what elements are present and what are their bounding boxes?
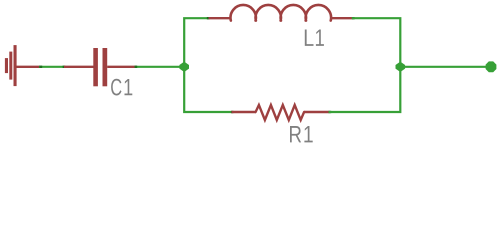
junction mark at R1 left pin — [231, 111, 234, 113]
node B junction dot — [396, 62, 406, 72]
resistor R1 right pin — [304, 111, 330, 113]
wire node A up to inductor branch — [184, 18, 209, 67]
wire node A down to resistor branch — [184, 67, 232, 112]
label R1 — [290, 126, 313, 142]
junction mark at L1 right pin — [352, 17, 355, 19]
ground pin wire — [16, 66, 40, 68]
wire net ground to C1 — [39, 66, 65, 68]
capacitor C1 right pin — [107, 66, 136, 68]
inductor L1 right pin — [331, 17, 353, 19]
wire resistor branch to node B — [329, 67, 401, 112]
wire inductor branch to node B — [352, 18, 401, 67]
output end node dot — [486, 61, 497, 72]
wire net C1 to node A — [135, 66, 185, 68]
inductor L1 left pin — [209, 17, 232, 19]
capacitor C1 left pin — [64, 66, 94, 68]
label L1 — [305, 30, 324, 46]
junction mark at C1 right pin — [135, 66, 138, 68]
inductor L1 coil — [231, 5, 332, 21]
output wire net — [400, 66, 487, 68]
node A junction dot — [179, 62, 189, 72]
resistor R1 left pin — [232, 111, 257, 113]
resistor R1 zigzag — [256, 105, 305, 120]
junction mark at R1 right pin — [329, 111, 332, 113]
capacitor C1 plates — [93, 48, 107, 86]
junction mark at C1 left pin — [63, 66, 66, 68]
label C1 — [111, 79, 132, 96]
junction mark at ground pin — [39, 66, 42, 68]
junction mark at L1 left pin — [207, 17, 210, 19]
ground (earth) symbol — [5, 45, 17, 86]
